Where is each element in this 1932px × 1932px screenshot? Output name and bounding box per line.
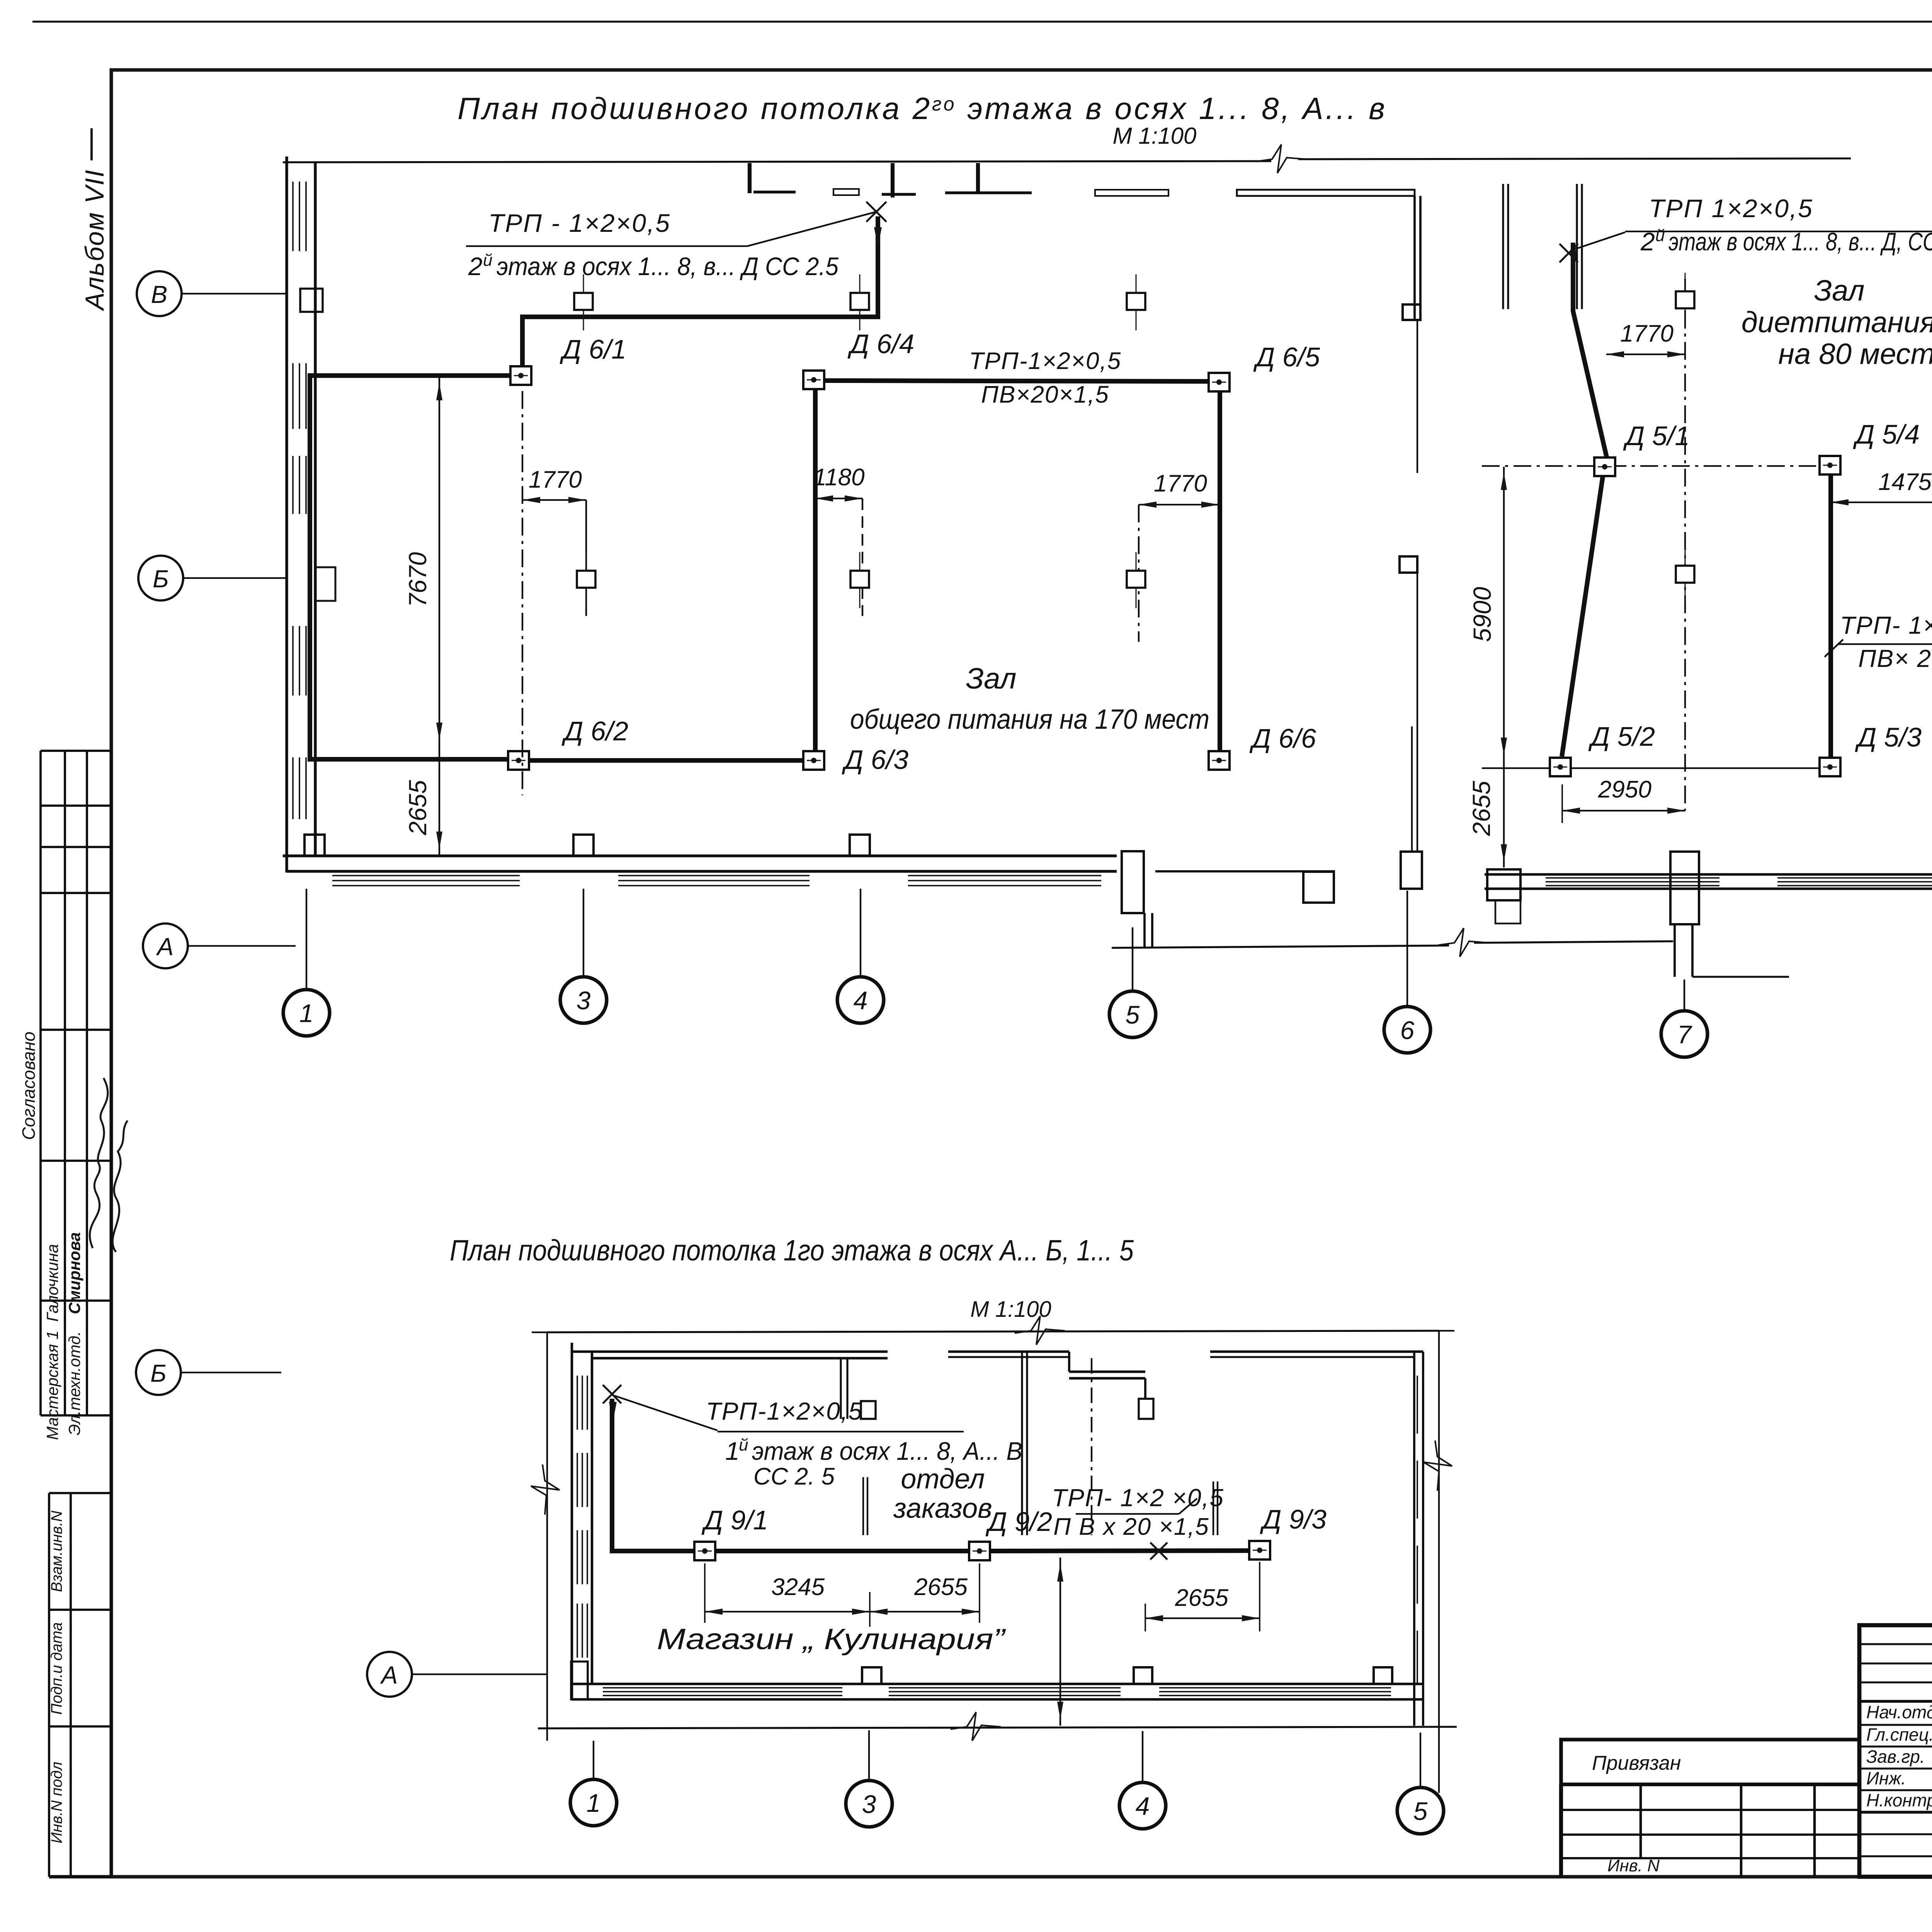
svg-text:ПВ× 20×1,5: ПВ× 20×1,5 bbox=[1858, 645, 1932, 672]
left wall hatch bottom plan bbox=[577, 1376, 578, 1430]
main plan left wall outer bbox=[285, 156, 288, 872]
strip bottom edge bbox=[49, 1875, 111, 1879]
column stub on bottom wall bbox=[304, 835, 325, 856]
svg-text:5: 5 bbox=[1413, 1797, 1428, 1825]
walkway lower line right bbox=[1474, 941, 1673, 943]
window hatch bbox=[292, 182, 294, 251]
axis circle А bottom bbox=[367, 1652, 412, 1697]
column stub on bottom wall bbox=[573, 835, 594, 856]
svg-text:В: В bbox=[151, 281, 168, 308]
corridor wall double lower bbox=[1411, 726, 1413, 852]
dim mid tick bbox=[869, 1592, 871, 1627]
top wall line 1 bbox=[572, 1350, 888, 1353]
column marker bbox=[1127, 274, 1145, 330]
corridor wall thin lower bbox=[1417, 320, 1418, 473]
window hatch bbox=[292, 757, 294, 819]
axis circle 3 bottom bbox=[846, 1781, 892, 1827]
doorpost below bbox=[1673, 924, 1676, 977]
step bbox=[1144, 1378, 1146, 1399]
ext c bbox=[1145, 1604, 1146, 1631]
detector Д5/4 bbox=[1820, 456, 1840, 474]
axis through Д6/1 bbox=[522, 391, 523, 795]
wire riser bottom plan bbox=[612, 1399, 694, 1551]
svg-text:5: 5 bbox=[1126, 1000, 1140, 1029]
svg-text:ТРП- 1×2×0,5: ТРП- 1×2×0,5 bbox=[1840, 611, 1932, 639]
column marker bbox=[577, 552, 595, 608]
svg-text:Д 6/1: Д 6/1 bbox=[560, 334, 626, 364]
connection cross main riser bbox=[866, 202, 886, 222]
svg-text:4: 4 bbox=[854, 986, 868, 1015]
column stub on bottom wall bbox=[850, 835, 870, 856]
window sill lines bbox=[618, 880, 810, 881]
svg-text:заказов: заказов bbox=[893, 1493, 992, 1524]
wire riser from 2nd floor bbox=[522, 216, 878, 366]
svg-text:й: й bbox=[739, 1435, 748, 1454]
bottom window lines bbox=[889, 1687, 1121, 1689]
wire Д9/1 to Д9/2 bbox=[715, 1549, 969, 1553]
svg-text:2655: 2655 bbox=[914, 1574, 968, 1600]
detector Д6/5 bbox=[1209, 373, 1230, 391]
window hatch bbox=[299, 456, 300, 514]
svg-text:Альбом VII: Альбом VII bbox=[80, 169, 109, 311]
block right of doorway bbox=[1303, 872, 1334, 903]
top wall pier c bbox=[891, 163, 895, 197]
svg-text:Д 6/4: Д 6/4 bbox=[847, 329, 914, 359]
svg-text:Д 6/2: Д 6/2 bbox=[561, 716, 628, 746]
axis circle А left bbox=[143, 923, 188, 968]
corridor wall box 1 bbox=[1403, 304, 1420, 320]
svg-text:4: 4 bbox=[1136, 1792, 1150, 1820]
svg-text:Д 6/3: Д 6/3 bbox=[842, 745, 908, 775]
top wall seg3b bbox=[1210, 1356, 1414, 1358]
window sill lines bbox=[1546, 881, 1719, 883]
ext d bbox=[1259, 1562, 1260, 1631]
axis В boundary line right part bbox=[1298, 158, 1851, 159]
bottom plan top boundary bbox=[547, 1331, 1439, 1332]
svg-text:1770: 1770 bbox=[1154, 470, 1207, 497]
axis circle 3 bbox=[560, 977, 607, 1023]
column marker bbox=[1127, 552, 1145, 608]
top wall segment f bbox=[1237, 190, 1415, 196]
svg-text:1: 1 bbox=[587, 1789, 601, 1817]
svg-text:Зал: Зал bbox=[1814, 274, 1865, 307]
window hatch bbox=[305, 363, 307, 429]
axis circle 1 bottom bbox=[570, 1779, 617, 1826]
bottom window lines bbox=[1159, 1687, 1391, 1689]
corridor wall box 3 bbox=[1401, 852, 1422, 889]
middle plan bottom wall bottom line bbox=[1485, 888, 1932, 890]
svg-text:3: 3 bbox=[577, 986, 591, 1015]
left margin stamp table upper bbox=[39, 751, 42, 1415]
svg-text:Магазин „ Кулинария”: Магазин „ Кулинария” bbox=[657, 1623, 1006, 1656]
break mark bbox=[1423, 1440, 1452, 1491]
top pier line bbox=[1581, 184, 1583, 309]
corridor jamb west bbox=[1143, 913, 1146, 947]
dim line 2655 middle bbox=[1503, 761, 1505, 867]
column stub bw3 bbox=[1374, 1667, 1392, 1684]
svg-text:ТРП - 1×2×0,5: ТРП - 1×2×0,5 bbox=[488, 209, 671, 237]
top wall stub down b bbox=[846, 1358, 848, 1419]
bottom window lines bbox=[889, 1691, 1121, 1692]
main plan bottom wall bottom line bbox=[287, 870, 1117, 872]
column marker bbox=[850, 274, 869, 330]
interior wall b bbox=[1026, 1352, 1028, 1535]
svg-text:Б: Б bbox=[153, 565, 169, 593]
top wall stub d foot bbox=[945, 191, 1032, 194]
window hatch bbox=[305, 757, 307, 819]
right wall hatch bottom plan bbox=[1417, 1631, 1418, 1685]
svg-text:6: 6 bbox=[1400, 1016, 1415, 1044]
axis stub 3 bbox=[583, 889, 584, 976]
svg-text:2655: 2655 bbox=[1175, 1585, 1228, 1611]
leader tick right mid bbox=[1825, 639, 1843, 657]
bottom wall right thin segment bbox=[1155, 870, 1335, 872]
bottom wall line 1 bbox=[572, 1683, 1423, 1685]
bottom plan west axis bbox=[546, 1332, 548, 1741]
door jamb block at axis 7 bbox=[1670, 852, 1699, 924]
wire Д6/1 to left wall bbox=[310, 376, 510, 759]
svg-text:1: 1 bbox=[299, 999, 314, 1027]
left wall hatch bottom plan bbox=[582, 1376, 583, 1430]
axis stub 3 bottom bbox=[868, 1730, 870, 1780]
corridor wall west line bbox=[1413, 196, 1416, 319]
wire Д6/3 to Д6/4 bbox=[813, 389, 818, 751]
main plan bottom wall top line bbox=[283, 854, 1117, 857]
stub box 2 bbox=[1139, 1399, 1153, 1419]
bottom plan left wall inner bbox=[591, 1352, 594, 1684]
stub box bbox=[861, 1401, 876, 1419]
window hatch bbox=[305, 182, 307, 251]
dim line 1770 bbox=[522, 499, 586, 501]
top pier line bbox=[1507, 184, 1509, 309]
svg-text:Привязан: Привязан bbox=[1592, 1752, 1681, 1774]
bottom wall corner block bbox=[1487, 869, 1520, 900]
svg-text:Н.контр: Н.контр bbox=[1866, 1790, 1932, 1810]
svg-text:Инж.: Инж. bbox=[1866, 1768, 1906, 1788]
ext b bbox=[979, 1563, 980, 1623]
connection cross bottom plan bbox=[603, 1385, 621, 1403]
svg-text:этаж в осях 1... 8, в... Д С: этаж в осях 1... 8, в... Д СС 2.5 bbox=[497, 252, 838, 281]
bottom window lines bbox=[889, 1695, 1121, 1696]
svg-text:общего питания на 170 мест: общего питания на 170 мест bbox=[850, 704, 1209, 735]
svg-text:Зал: Зал bbox=[966, 662, 1017, 695]
right wall hatch bottom plan bbox=[1417, 1376, 1418, 1434]
axis circle 1 bbox=[283, 990, 330, 1036]
window sill lines bbox=[618, 875, 810, 876]
axis Д5/1-Д5/4 dashdot bbox=[1482, 465, 1816, 467]
svg-text:этаж в осях 1... 8, в... Д,: этаж в осях 1... 8, в... Д, СС2.5 bbox=[1668, 227, 1932, 256]
window sill lines bbox=[1777, 885, 1932, 886]
svg-text:Б: Б bbox=[150, 1359, 167, 1387]
svg-text:Д 9/2: Д 9/2 bbox=[985, 1507, 1052, 1537]
window sill lines bbox=[332, 880, 520, 881]
svg-text:отдел: отдел bbox=[901, 1464, 985, 1495]
svg-text:Д 6/6: Д 6/6 bbox=[1249, 723, 1316, 753]
svg-text:7: 7 bbox=[1677, 1020, 1692, 1049]
axis tick bp east top bbox=[1423, 1330, 1454, 1332]
main plan left wall inner bbox=[314, 162, 316, 856]
axis leader Б bbox=[183, 577, 286, 579]
detector Д5/1 bbox=[1594, 457, 1615, 476]
leader middle bbox=[1571, 232, 1625, 250]
window hatch bbox=[299, 182, 300, 251]
svg-text:на 80 мест: на 80 мест bbox=[1778, 338, 1932, 371]
axis circle 7 bbox=[1661, 1011, 1708, 1057]
axis below dim bbox=[1138, 505, 1139, 642]
svg-text:Инв. N: Инв. N bbox=[1607, 1856, 1660, 1875]
top wall dash e bbox=[1095, 190, 1168, 196]
svg-text:2: 2 bbox=[468, 252, 483, 281]
walkway lower line bbox=[1112, 946, 1449, 948]
axis leader Б bottom bbox=[181, 1372, 281, 1373]
right wall hatch bottom plan bbox=[1417, 1546, 1418, 1604]
window hatch bbox=[305, 626, 307, 696]
svg-text:А: А bbox=[380, 1661, 398, 1689]
ext a bbox=[704, 1563, 706, 1623]
bottom-left corner block bbox=[571, 1662, 588, 1699]
axis 3 thin line bbox=[1091, 1358, 1092, 1535]
left margin stamp table lower bbox=[48, 1493, 50, 1877]
bottom plan left wall outer bbox=[571, 1343, 573, 1699]
window hatch bbox=[299, 757, 300, 819]
svg-text:Д 6/5: Д 6/5 bbox=[1253, 342, 1320, 372]
wire Д9/2 to Д9/3 bbox=[990, 1551, 1249, 1551]
dim line 1770 mid bbox=[1139, 504, 1219, 505]
dim line 2655 bbox=[439, 746, 440, 855]
bottom window lines bbox=[1159, 1691, 1391, 1692]
step down bbox=[1068, 1352, 1070, 1372]
arrow down middle riser bbox=[1570, 250, 1578, 270]
svg-text:этаж в осях 1... 8, А... В: этаж в осях 1... 8, А... В bbox=[752, 1437, 1022, 1465]
wire Д6/4 to Д6/5 bbox=[824, 381, 1209, 381]
axis circle В left bbox=[137, 271, 182, 316]
bottom window lines bbox=[603, 1687, 842, 1689]
connection cross middle bbox=[1560, 244, 1578, 262]
dim line 5900 bbox=[1503, 467, 1505, 761]
bottom window lines bbox=[1159, 1695, 1391, 1696]
left wall hatch bottom plan bbox=[582, 1530, 583, 1584]
svg-text:й: й bbox=[1655, 226, 1665, 245]
corridor wall east line bbox=[1419, 196, 1422, 319]
axis circle 6 bbox=[1384, 1007, 1430, 1053]
underline right mid bbox=[1837, 643, 1932, 645]
window hatch bbox=[305, 456, 307, 514]
step line bbox=[1692, 976, 1789, 978]
svg-text:1: 1 bbox=[725, 1437, 740, 1465]
page edge top thin line bbox=[32, 20, 1932, 22]
column marker bbox=[850, 552, 869, 608]
leader tick bottom right bbox=[1179, 1498, 1197, 1514]
column stub bw1 bbox=[862, 1667, 881, 1684]
dim extension bbox=[862, 498, 863, 616]
window hatch bbox=[292, 363, 294, 429]
Привязан box bbox=[1561, 1740, 1859, 1784]
top wall stub d bbox=[976, 163, 980, 192]
svg-text:ТРП-1×2×0,5: ТРП-1×2×0,5 bbox=[706, 1397, 863, 1425]
right wall line 2 bottom plan bbox=[1422, 1352, 1424, 1726]
window hatch bbox=[299, 363, 300, 429]
window sill lines bbox=[618, 885, 810, 886]
axis stub 5 bbox=[1132, 927, 1133, 990]
corridor wall thin lower 2 bbox=[1417, 573, 1418, 851]
window sill lines bbox=[332, 875, 520, 876]
axis В pier on left wall bbox=[300, 289, 323, 312]
dim line 3245/2655 bbox=[705, 1611, 980, 1612]
axis stub 7 bbox=[1684, 980, 1685, 1010]
svg-text:Зав.гр.: Зав.гр. bbox=[1866, 1747, 1925, 1767]
detector Д5/2 bbox=[1550, 758, 1571, 776]
top wall lower seg bbox=[1069, 1371, 1145, 1373]
svg-text:ТРП- 1×2 ×0,5: ТРП- 1×2 ×0,5 bbox=[1052, 1484, 1224, 1512]
dim line 1180 bbox=[815, 498, 862, 499]
underline bottom plan bbox=[718, 1431, 964, 1432]
detector Д6/3 bbox=[803, 751, 824, 770]
top wall seg2 line bbox=[948, 1350, 1069, 1353]
svg-text:2655: 2655 bbox=[1468, 781, 1495, 836]
axis circle 4 bottom bbox=[1119, 1782, 1166, 1829]
column marker bbox=[1676, 547, 1694, 603]
svg-text:Д 5/3: Д 5/3 bbox=[1855, 722, 1922, 752]
window sill lines bbox=[1546, 885, 1719, 886]
svg-text:1475: 1475 bbox=[1878, 469, 1932, 495]
window sill lines bbox=[1546, 877, 1719, 879]
right wall line 1 bottom plan bbox=[1413, 1352, 1415, 1726]
detector Д6/2 bbox=[508, 751, 529, 770]
detector Д6/4 bbox=[803, 371, 824, 389]
svg-text:1770: 1770 bbox=[1620, 320, 1673, 347]
axis circle 4 bbox=[837, 977, 884, 1023]
corner step bbox=[1495, 900, 1520, 923]
mid pier b bbox=[867, 1477, 868, 1535]
dim extension bbox=[585, 500, 587, 616]
top pier line bbox=[1576, 184, 1578, 309]
break mark bbox=[1015, 1316, 1065, 1345]
svg-text:й: й bbox=[483, 251, 492, 270]
left wall hatch bottom plan bbox=[577, 1453, 578, 1507]
axis stub 6 bbox=[1406, 891, 1408, 1006]
window sill lines bbox=[332, 885, 520, 886]
wire riser middle bbox=[1573, 243, 1607, 457]
overline of VII bbox=[90, 128, 93, 160]
svg-text:П В х 20 ×1,5: П В х 20 ×1,5 bbox=[1053, 1514, 1209, 1540]
signature squiggle 1 bbox=[90, 1078, 108, 1248]
window sill lines bbox=[1777, 881, 1932, 883]
axis circle Б left bbox=[138, 556, 183, 600]
dim line 2655 right bbox=[1145, 1617, 1260, 1619]
axis stub 1 bbox=[306, 889, 307, 989]
svg-text:Д 5/2: Д 5/2 bbox=[1588, 721, 1655, 752]
window hatch bbox=[292, 456, 294, 514]
window sill lines bbox=[1777, 877, 1932, 879]
break mark bbox=[531, 1464, 560, 1515]
left wall hatch bottom plan bbox=[587, 1453, 588, 1507]
svg-text:Д 9/1: Д 9/1 bbox=[701, 1505, 768, 1535]
detector Д6/1 bbox=[510, 366, 531, 385]
window hatch bbox=[299, 626, 300, 696]
title block outer bbox=[1859, 1625, 1932, 1877]
svg-text:7670: 7670 bbox=[404, 552, 432, 607]
top wall stub a bbox=[748, 163, 752, 193]
svg-text:1180: 1180 bbox=[813, 464, 864, 491]
arrow down bottom riser bbox=[609, 1402, 617, 1422]
svg-text:5900: 5900 bbox=[1468, 587, 1496, 642]
left wall hatch bottom plan bbox=[587, 1376, 588, 1430]
detector Д9/2 bbox=[969, 1542, 990, 1560]
svg-text:Мастерская 1: Мастерская 1 bbox=[43, 1330, 61, 1440]
top wall seg2 line2 bbox=[948, 1356, 1069, 1358]
wire Д5/1 to Д5/2 bbox=[1562, 476, 1603, 757]
bottom wall line 2 bbox=[572, 1698, 1423, 1701]
axis circle 5 bottom bbox=[1397, 1787, 1444, 1834]
axis stub 1 bottom bbox=[593, 1741, 594, 1779]
svg-text:Д 5/4: Д 5/4 bbox=[1853, 419, 1920, 449]
top wall line 2 bbox=[592, 1357, 888, 1360]
bottom plan east axis bbox=[1438, 1331, 1440, 1793]
window hatch bbox=[292, 626, 294, 696]
svg-text:План подшивного потолка 1го: План подшивного потолка 1го этажа в осях… bbox=[450, 1234, 1134, 1267]
detector Д5/3 bbox=[1820, 758, 1840, 776]
svg-text:3: 3 bbox=[862, 1790, 876, 1818]
axis Б pilaster bbox=[315, 567, 335, 601]
svg-text:А: А bbox=[156, 933, 174, 961]
svg-text:Нач.отд.: Нач.отд. bbox=[1866, 1702, 1932, 1722]
svg-text:1770: 1770 bbox=[529, 466, 582, 493]
axis leader А bbox=[188, 945, 296, 947]
bottom window lines bbox=[603, 1691, 842, 1692]
svg-text:Д 9/3: Д 9/3 bbox=[1260, 1504, 1327, 1534]
arrow down on riser bbox=[874, 227, 882, 247]
axis stub 4 bottom bbox=[1142, 1731, 1143, 1782]
doorway block at axis 5 bbox=[1122, 851, 1144, 913]
top wall seg3 bbox=[1210, 1350, 1423, 1353]
window sill lines bbox=[908, 880, 1101, 881]
svg-text:Д 5/1: Д 5/1 bbox=[1623, 421, 1690, 451]
dim line 1770 middle bbox=[1606, 354, 1685, 355]
axis В boundary line left part bbox=[283, 161, 1271, 162]
svg-text:3245: 3245 bbox=[771, 1574, 825, 1600]
column marker bbox=[574, 274, 593, 330]
wire Д6/5 to Д6/6 bbox=[1218, 391, 1222, 751]
axis circle Б bottom bbox=[136, 1350, 181, 1395]
cable underline middle bbox=[1625, 231, 1932, 232]
detector Д9/3 bbox=[1249, 1541, 1270, 1560]
break mark bbox=[1256, 145, 1306, 173]
svg-text:Смирнова: Смирнова bbox=[65, 1232, 83, 1314]
axis leader А bottom bbox=[412, 1673, 547, 1675]
left wall hatch bottom plan bbox=[577, 1604, 578, 1658]
cable label underline bbox=[466, 245, 747, 247]
column marker bbox=[1676, 273, 1694, 329]
svg-text:Согласовано: Согласовано bbox=[19, 1032, 39, 1140]
vertical dim arrow line bbox=[1060, 1558, 1061, 1726]
wire Д5/4 to Д5/3 bbox=[1828, 475, 1833, 757]
bottom window lines bbox=[603, 1695, 842, 1696]
detector Д9/1 bbox=[694, 1542, 715, 1560]
window sill lines bbox=[908, 885, 1101, 886]
left wall hatch bottom plan bbox=[577, 1530, 578, 1584]
underline bottom right bbox=[1076, 1513, 1179, 1515]
right wall hatch bottom plan bbox=[1417, 1461, 1418, 1519]
svg-text:Инв.N подл: Инв.N подл bbox=[48, 1762, 65, 1844]
left wall hatch bottom plan bbox=[582, 1453, 583, 1507]
svg-text:ТРП-1×2×0,5: ТРП-1×2×0,5 bbox=[969, 348, 1121, 374]
svg-text:2950: 2950 bbox=[1598, 776, 1651, 803]
axis stub 5 bottom bbox=[1420, 1733, 1421, 1787]
dim line 7670 bbox=[439, 377, 440, 746]
top pier line bbox=[1502, 184, 1504, 309]
svg-text:2655: 2655 bbox=[404, 780, 432, 835]
leader bottom plan bbox=[614, 1396, 718, 1430]
